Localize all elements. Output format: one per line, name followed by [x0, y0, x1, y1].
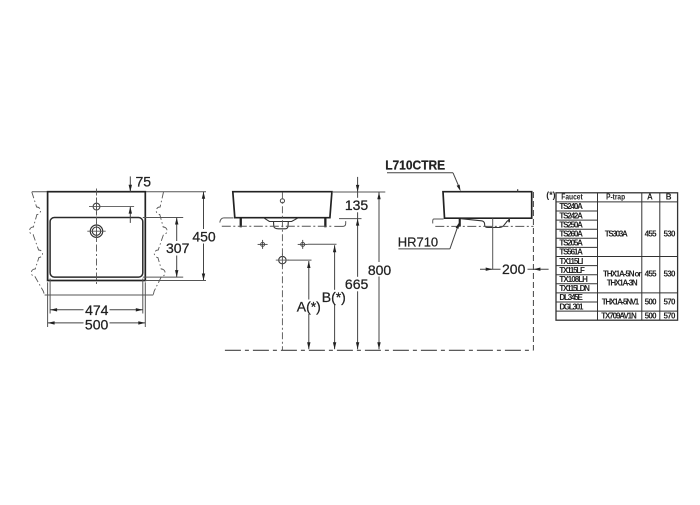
- dim 800 text: [366, 262, 393, 277]
- basin inner rounded rect (plan): [50, 218, 143, 278]
- dim 307 ext bottom: [143, 276, 183, 278]
- ext line A (from drain): [288, 259, 312, 261]
- dim 474 ext right: [142, 279, 144, 314]
- drain crosshair horizontal: [87, 230, 105, 232]
- ext line B (from supply): [308, 243, 337, 245]
- dim 75 arrow down: [129, 185, 132, 192]
- svg-text:A: A: [647, 192, 653, 201]
- svg-text:TS561A: TS561A: [559, 248, 583, 257]
- dim 500 line: [48, 322, 146, 324]
- svg-text:TX115LDN: TX115LDN: [559, 284, 590, 293]
- svg-text:TS205A: TS205A: [559, 239, 583, 248]
- drain (plan) inner circle: [92, 227, 100, 235]
- svg-text:75: 75: [136, 174, 152, 190]
- faucet hole (plan): [93, 203, 100, 210]
- dim A text: [295, 300, 323, 315]
- dim 307 line: [176, 218, 178, 278]
- svg-text:500: 500: [85, 316, 109, 332]
- svg-text:TX108LH: TX108LH: [559, 275, 588, 284]
- dim 307 text: [165, 241, 191, 256]
- counter cutout tick right (front): [324, 218, 326, 227]
- table header texts: [561, 192, 672, 201]
- dim 450 text: [191, 229, 217, 244]
- basin underside contour (front): [264, 218, 299, 222]
- supply cross left (front): [258, 240, 268, 249]
- dim B text: [320, 290, 348, 305]
- svg-text:P-trap: P-trap: [606, 192, 625, 201]
- dim 474 text: [84, 303, 110, 317]
- dash-dot line (side): [435, 225, 533, 227]
- svg-text:450: 450: [192, 228, 216, 244]
- faucet hole (front): [280, 199, 284, 203]
- svg-text:Faucet: Faucet: [561, 192, 583, 201]
- dim 200 left segment: [480, 268, 501, 270]
- svg-text:TS242A: TS242A: [559, 211, 583, 220]
- svg-text:307: 307: [166, 240, 190, 256]
- svg-text:B: B: [666, 192, 672, 201]
- counter line left (front): [224, 217, 234, 219]
- dim 135 tail top: [357, 177, 359, 192]
- right break line (plan counter): [153, 192, 167, 295]
- svg-text:THX1A-5N or: THX1A-5N or: [603, 269, 642, 278]
- counter cutout tick left (front): [240, 218, 242, 227]
- dim 500 ext right: [144, 282, 146, 327]
- svg-text:455: 455: [645, 269, 658, 278]
- dim 665 text: [344, 277, 371, 292]
- svg-text:B(*): B(*): [322, 289, 346, 305]
- svg-text:455: 455: [645, 230, 658, 239]
- dim 800 line: [378, 192, 380, 349]
- dim B line: [334, 245, 336, 349]
- counter top-right extension to 450 dim: [145, 191, 206, 193]
- sink body (front): [233, 192, 332, 218]
- svg-text:THX1A-5NV1: THX1A-5NV1: [602, 298, 640, 307]
- front centerline: [281, 192, 283, 350]
- dim 474 line: [50, 309, 143, 311]
- faucet hole vertical crosshair: [96, 198, 98, 216]
- counter top edge line (plan): [32, 191, 48, 193]
- trap outline (side): [461, 219, 509, 228]
- dim 450 arrows: [202, 192, 205, 199]
- svg-text:L710CTRE: L710CTRE: [385, 158, 445, 173]
- svg-text:TS250A: TS250A: [559, 220, 583, 229]
- svg-text:570: 570: [664, 298, 677, 307]
- svg-text:570: 570: [664, 311, 677, 320]
- table grid: [556, 193, 678, 320]
- svg-text:TX115LI: TX115LI: [559, 257, 583, 266]
- svg-text:500: 500: [645, 311, 658, 320]
- sink body (side): [443, 192, 532, 219]
- table p-trap and A B values: [601, 230, 676, 321]
- dim 307 ext top: [143, 217, 183, 219]
- svg-text:135: 135: [345, 197, 369, 213]
- dim 135 text: [344, 198, 371, 213]
- svg-text:DL345E: DL345E: [559, 293, 583, 302]
- counter line left (side): [434, 218, 444, 220]
- cutout tick right (side): [508, 218, 510, 222]
- floor line: [225, 349, 534, 351]
- svg-text:TS303A: TS303A: [605, 230, 628, 239]
- svg-text:A(*): A(*): [297, 299, 321, 315]
- drain circle (front): [279, 256, 286, 263]
- dim 135/665 shared line: [357, 192, 359, 349]
- label L710CTRE leader: [453, 173, 460, 188]
- dim A line: [308, 261, 310, 349]
- svg-text:TS240A: TS240A: [559, 202, 583, 211]
- dim 75 line lower: [129, 207, 131, 223]
- ext line top (sink top to 800): [332, 191, 385, 193]
- drain crosshair vertical: [96, 222, 98, 240]
- drain crosshair (front): [276, 259, 289, 261]
- supply cross right (front): [298, 240, 308, 249]
- faucet tick (side): [517, 189, 519, 192]
- svg-text:530: 530: [664, 230, 677, 239]
- svg-text:TX709AV1N: TX709AV1N: [601, 311, 637, 320]
- wall dashed line: [532, 192, 534, 350]
- svg-text:665: 665: [345, 276, 369, 292]
- dim 200 right segment: [526, 268, 548, 270]
- drain stub (front): [274, 222, 289, 229]
- cutout tick left (side): [459, 218, 461, 226]
- counter left curl (side): [432, 219, 435, 223]
- label HR710 underline: [398, 248, 450, 250]
- svg-text:800: 800: [368, 262, 392, 278]
- dim 474 arrows: [50, 308, 57, 311]
- counter right curl (front): [334, 221, 345, 226]
- counter left curl (front): [220, 218, 224, 223]
- dim 500 arrows: [48, 321, 55, 324]
- label L710CTRE underline: [387, 172, 453, 174]
- svg-text:DGL301: DGL301: [559, 302, 584, 311]
- dim 450 ext bottom: [145, 280, 206, 282]
- plan centerline: [96, 189, 98, 285]
- sink outer rect (plan): [48, 192, 146, 281]
- svg-text:THX1A-3N: THX1A-3N: [607, 278, 638, 287]
- left break line (plan counter): [29, 192, 44, 295]
- svg-text:200: 200: [502, 261, 526, 277]
- dim 500 ext left: [47, 282, 49, 327]
- dim 500 text: [84, 316, 110, 330]
- dim 450 line: [203, 192, 205, 281]
- ext line counter right (for 135/665): [339, 218, 362, 220]
- label HR710 leader: [450, 225, 459, 249]
- drain (plan) outer circle: [90, 225, 102, 237]
- svg-text:500: 500: [645, 298, 658, 307]
- counter dash-dot line (front): [222, 225, 332, 227]
- dim 200 text: [501, 262, 528, 277]
- dim 474 ext left: [49, 279, 51, 314]
- drain centerline (side): [492, 218, 494, 269]
- svg-text:TS260A: TS260A: [559, 230, 583, 239]
- counter front edge (plan): [45, 294, 154, 296]
- svg-text:TX115LF: TX115LF: [559, 266, 585, 275]
- dim 307 arrows: [175, 218, 178, 225]
- faucet hole crosshair / 75 extension line: [89, 206, 134, 208]
- dim 75 line upper: [129, 176, 131, 191]
- svg-text:530: 530: [664, 269, 677, 278]
- dim 75 arrow up: [129, 207, 132, 214]
- svg-text:HR710: HR710: [398, 234, 438, 249]
- svg-text:(*): (*): [546, 190, 555, 200]
- table faucet column texts: [559, 202, 590, 311]
